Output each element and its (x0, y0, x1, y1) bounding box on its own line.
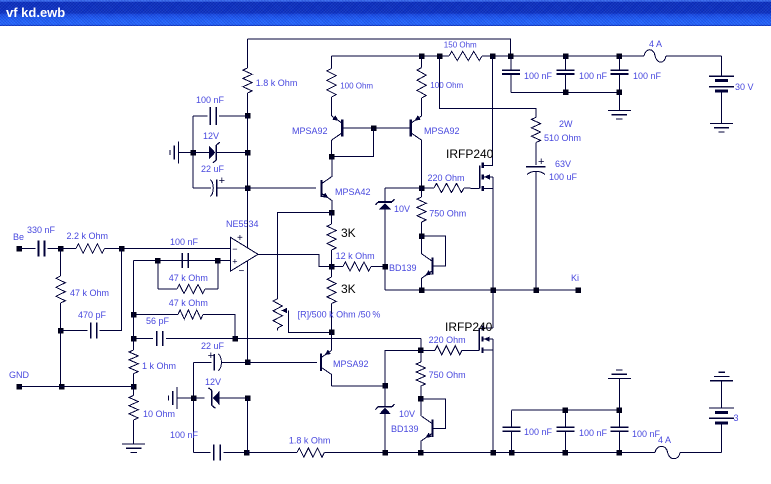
svg-text:10 Ohm: 10 Ohm (143, 409, 175, 419)
node junction 12V row (245, 150, 251, 156)
svg-text:3K: 3K (341, 226, 356, 240)
wire lower base row (248, 361, 317, 363)
node junction rail/M1 source (490, 287, 496, 293)
node junction lower gate chain (382, 383, 388, 389)
resistor R17 220 Ohm lower (421, 349, 435, 351)
capacitor C8 56pF (156, 331, 158, 346)
wire left column (133, 261, 135, 350)
wire M2 source (492, 350, 494, 452)
transistor Q1 MPSA92 left (341, 119, 343, 136)
svg-text:2.2 k Ohm: 2.2 k Ohm (67, 231, 109, 241)
svg-text:4 A: 4 A (658, 435, 671, 445)
wire 22uF lower row (194, 361, 212, 363)
svg-text:100 nF: 100 nF (170, 237, 199, 247)
node junction input cap left (155, 258, 161, 264)
capacitor C2 22uF upper electrolytic (193, 187, 211, 189)
ground G6 above neg rail (608, 378, 631, 380)
capacitor C3 100uF electrolytic (526, 166, 546, 168)
ground G5 under battery (710, 123, 733, 125)
resistor R2 100 Ohm left (331, 56, 333, 69)
svg-text:+: + (538, 156, 544, 168)
svg-text:−: − (232, 244, 237, 254)
resistor R5 220 Ohm upper (419, 185, 425, 191)
transistor Q4 BD139 upper (422, 236, 446, 266)
node junction lower gate (418, 348, 424, 354)
svg-text:10V: 10V (394, 204, 410, 214)
node junction rail/zobel (533, 287, 539, 293)
opamp V+ pin (247, 188, 249, 248)
capacitor C14 100nF neg rail2 (564, 410, 566, 427)
node junction BD139 upper collector (419, 233, 425, 239)
node junction input cap right (215, 258, 221, 264)
resistor R7 47k input parallel (157, 261, 159, 289)
zener D1 12V upper (193, 152, 209, 154)
transistor Q2 MPSA92 right (410, 119, 412, 136)
svg-text:MPSA92: MPSA92 (424, 126, 460, 136)
node junction 2.2k right (119, 246, 125, 252)
ground G2 lower-left (176, 387, 178, 409)
node junction feedback mid (232, 336, 238, 342)
svg-text:22 uF: 22 uF (201, 341, 225, 351)
svg-text:[R]/500 k Ohm /50 %: [R]/500 k Ohm /50 % (298, 310, 381, 320)
svg-text:12 k Ohm: 12 k Ohm (336, 251, 375, 261)
resistor R18 750 Ohm lower (420, 350, 422, 362)
svg-text:100 nF: 100 nF (524, 71, 553, 81)
node Ki terminal (575, 287, 581, 293)
svg-text:750 Ohm: 750 Ohm (429, 209, 466, 219)
svg-text:+: + (208, 350, 214, 362)
svg-text:220 Ohm: 220 Ohm (428, 173, 465, 183)
svg-text:GND: GND (9, 370, 30, 380)
resistor R6 750 Ohm upper (421, 188, 423, 197)
svg-text:NE5534: NE5534 (226, 219, 259, 229)
node junction mosfet drain rail (490, 53, 496, 59)
node junction BD139 lower collector (418, 396, 424, 402)
wire neg decoupling top rail (512, 409, 620, 411)
node junction return rail right (617, 90, 623, 96)
svg-text:330 nF: 330 nF (27, 225, 56, 235)
resistor R-150Ohm (449, 51, 482, 60)
mosfet M2 IRFP240 lower (478, 328, 480, 350)
svg-text:Be: Be (13, 232, 24, 242)
wire lower mosfet drain (492, 290, 494, 328)
node junction neg rail mid (563, 407, 569, 413)
svg-text:BD139: BD139 (389, 263, 417, 273)
opamp U1 NE5534 (231, 238, 258, 272)
wire V+ rail x247 (247, 116, 249, 248)
node junction 12k right (382, 264, 388, 270)
zener D2 12V lower (194, 397, 205, 399)
wire zener link upper (385, 187, 422, 189)
wire input (19, 248, 35, 250)
node junction M2 source rail (490, 450, 496, 456)
svg-text:100 nF: 100 nF (170, 430, 199, 440)
svg-text:100 uF: 100 uF (549, 172, 578, 182)
svg-text:63V: 63V (555, 159, 571, 169)
svg-text:Ki: Ki (571, 273, 579, 283)
capacitor C7 100nF input (181, 253, 183, 268)
svg-text:510 Ohm: 510 Ohm (544, 133, 581, 143)
svg-text:47 k Ohm: 47 k Ohm (169, 273, 208, 283)
ground G1 upper-left (178, 142, 180, 164)
wire M1 source (492, 189, 494, 290)
svg-text:220 Ohm: 220 Ohm (429, 335, 466, 345)
svg-text:+: + (237, 233, 243, 244)
wire Q3 emitter (331, 201, 333, 213)
capacitor C4 100nF rail1 top (563, 53, 569, 59)
node junction 1.8k/100nF (245, 113, 251, 119)
resistor R14 2.2k (61, 248, 76, 250)
node junction fb left (131, 312, 137, 318)
svg-text:3K: 3K (341, 282, 356, 296)
svg-text:30 V: 30 V (735, 82, 754, 92)
wire output rail Ki (384, 267, 386, 291)
node junction input bias (58, 246, 64, 252)
svg-text:MPSA92: MPSA92 (333, 359, 369, 369)
wire lower gate link (385, 350, 421, 386)
mosfet M1 IRFP240 upper (479, 165, 481, 188)
wire decoupling return rail top (511, 91, 620, 93)
node junction 22uF row (245, 185, 251, 191)
svg-text:100 nF: 100 nF (579, 71, 608, 81)
node junction neg bottom right (617, 450, 623, 456)
capacitor C13 100nF neg rail1 (509, 450, 514, 456)
fuse F1 4A top (644, 50, 666, 62)
svg-text:100 nF: 100 nF (196, 95, 225, 105)
svg-text:MPSA42: MPSA42 (335, 187, 371, 197)
svg-text:100 nF: 100 nF (632, 429, 661, 439)
resistor R11 47k feedback (134, 314, 178, 316)
wire aux loop vertical (193, 362, 195, 452)
wire left loop vertical (192, 116, 194, 188)
svg-text:1.8 k Ohm: 1.8 k Ohm (289, 436, 331, 446)
resistor R12 1k (129, 350, 138, 374)
capacitor C6 100nF rail3 top (618, 56, 620, 70)
ground G7 above bottom battery (710, 380, 733, 382)
wire top supply rail upper (248, 39, 511, 56)
svg-text:100 nF: 100 nF (579, 428, 608, 438)
ground G4 top right (618, 92, 620, 110)
battery B1 30V (721, 56, 723, 76)
resistor R1 1.8k top (247, 39, 249, 68)
node junction wiper/3K (329, 330, 335, 336)
svg-text:100 Ohm: 100 Ohm (430, 81, 463, 90)
resistor R3 100 Ohm right (419, 53, 425, 59)
capacitor C12 100nF lower (194, 452, 211, 454)
node junction BD139 emitter rail (418, 450, 424, 456)
node junction 470pF left (58, 328, 64, 334)
wire V- to bottom rail (247, 398, 249, 453)
svg-text:BD139: BD139 (391, 424, 419, 434)
wire pot feed (278, 213, 332, 299)
svg-text:22 uF: 22 uF (201, 164, 225, 174)
node junction 12k left (329, 264, 335, 270)
svg-text:IRFP240: IRFP240 (446, 147, 494, 161)
svg-text:4 A: 4 A (649, 39, 662, 49)
svg-text:MPSA92: MPSA92 (292, 126, 328, 136)
node junction Q1 collector (329, 154, 335, 160)
svg-text:2W: 2W (559, 119, 573, 129)
svg-text:56 pF: 56 pF (146, 316, 170, 326)
svg-text:470 pF: 470 pF (78, 310, 107, 320)
capacitor C9 330nF (38, 241, 40, 257)
svg-text:1 k Ohm: 1 k Ohm (142, 361, 176, 371)
node junction Vminus/22uF (245, 360, 251, 366)
svg-text:47 k Ohm: 47 k Ohm (169, 298, 208, 308)
zener D3 10V upper (384, 188, 386, 202)
capacitor C10 470pF (61, 330, 88, 332)
node junction zener bottom rail (382, 450, 388, 456)
potentiometer RP 500k (273, 299, 282, 328)
svg-text:100 Ohm: 100 Ohm (340, 82, 373, 91)
svg-text:IRFP240: IRFP240 (445, 320, 493, 334)
svg-text:100 nF: 100 nF (524, 427, 553, 437)
node junction rail/BD139 (419, 287, 425, 293)
wire opamp output (258, 254, 332, 266)
transistor Q3 MPSA42 (320, 180, 322, 197)
svg-text:100 nF: 100 nF (633, 71, 662, 81)
resistor R10 3K lower (331, 267, 333, 278)
node junction GND rail mid (59, 384, 65, 390)
resistor R4 510 Ohm 2W (531, 117, 540, 142)
svg-text:47 k Ohm: 47 k Ohm (70, 288, 109, 298)
node junction Vminus/zener (245, 395, 251, 401)
svg-text:150 Ohm: 150 Ohm (444, 40, 477, 49)
wire inverting input row (122, 248, 231, 250)
svg-text:12V: 12V (203, 131, 219, 141)
wire feedback long row (134, 338, 153, 340)
svg-text:1.8 k Ohm: 1.8 k Ohm (256, 78, 298, 88)
node junction Vminus rail bottom (244, 450, 250, 456)
node junction base rail (371, 125, 377, 131)
wire bottom rail (324, 452, 655, 454)
wire base rail current mirror (342, 127, 410, 129)
node junction aux gnd (191, 395, 197, 401)
resistor R9 3K upper (331, 213, 333, 224)
wire bias to gnd (60, 331, 62, 387)
resistor R16 1.8k bottom (247, 452, 297, 454)
transistor Q6 BD139 lower (421, 399, 446, 429)
wire gate bootstrap (440, 56, 537, 117)
node junction GND rail right (131, 384, 137, 390)
capacitor 100nF supply upper (193, 115, 207, 117)
svg-text:−: − (239, 266, 245, 277)
svg-text:+: + (232, 257, 237, 267)
node junction 150ohm left (437, 53, 443, 59)
wire GND rail (19, 386, 134, 388)
node junction ground/zener (190, 150, 196, 156)
node Be input terminal (16, 246, 22, 252)
wire front-end supply rail y56 (332, 55, 450, 57)
node junction return rail (563, 90, 569, 96)
wire MPSA42 base row (248, 187, 317, 189)
node junction rail corner (508, 53, 514, 59)
fuse F2 4A bottom (655, 446, 680, 458)
svg-text:+: + (219, 175, 225, 187)
node junction Q3 emitter (329, 210, 335, 216)
capacitor C11 22uF lower electrolytic (213, 354, 215, 371)
svg-text:10V: 10V (399, 409, 415, 419)
svg-text:750 Ohm: 750 Ohm (429, 370, 466, 380)
capacitor C5 100nF rail2 top (565, 56, 567, 70)
node junction neg bottom mid (563, 450, 569, 456)
resistor R8 12k (332, 266, 343, 268)
node junction fb row/left column (131, 336, 137, 342)
opamp V- pin (247, 261, 249, 363)
ground G3 bottom centre (122, 443, 145, 445)
svg-text:3: 3 (734, 413, 739, 423)
node junction neg rail right (617, 407, 623, 413)
zener D4 10V lower (384, 386, 386, 407)
wire drain vertical upper mosfet (492, 56, 494, 165)
wire noninverting input row (134, 260, 231, 262)
resistor R15 47k bias (60, 249, 62, 277)
wire base-collector tie (332, 128, 374, 157)
transistor Q5 MPSA92 lower (320, 354, 322, 371)
capacitor C15 100nF neg rail3 (618, 410, 620, 427)
svg-text:12V: 12V (205, 377, 221, 387)
node GND terminal (16, 384, 22, 390)
window title bar (0, 0, 771, 26)
battery B2 30V lower (721, 381, 723, 408)
wire to ground G3 (133, 420, 135, 444)
resistor R13 10 Ohm (129, 395, 138, 420)
